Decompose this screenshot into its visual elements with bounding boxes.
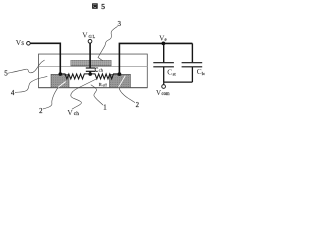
svg-text:V: V (82, 30, 88, 39)
svg-text:lc: lc (202, 71, 205, 76)
svg-text:5: 5 (101, 2, 105, 11)
svg-text:2: 2 (136, 102, 140, 109)
svg-text:S: S (21, 42, 24, 47)
svg-text:V: V (156, 89, 161, 97)
svg-text:com: com (162, 92, 170, 97)
svg-text:V: V (67, 108, 73, 117)
svg-text:4: 4 (11, 89, 15, 97)
svg-text:5: 5 (4, 69, 8, 77)
svg-text:GL: GL (89, 34, 96, 39)
svg-text:ch: ch (74, 111, 79, 117)
svg-text:eff: eff (103, 82, 108, 87)
svg-text:2: 2 (39, 108, 43, 115)
svg-text:C: C (167, 68, 172, 77)
svg-text:1: 1 (103, 105, 106, 112)
svg-text:3: 3 (118, 20, 122, 28)
